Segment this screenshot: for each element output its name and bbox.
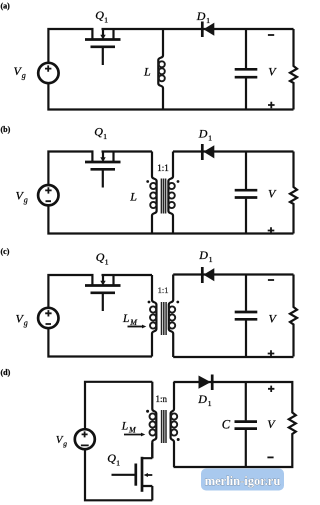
svg-text:Q: Q — [94, 125, 103, 139]
svg-text:1: 1 — [208, 133, 212, 142]
svg-text:g: g — [22, 71, 26, 80]
svg-text:1: 1 — [116, 459, 120, 468]
svg-text:Q: Q — [107, 451, 116, 465]
svg-text:g: g — [24, 196, 28, 205]
svg-text:L: L — [122, 313, 129, 325]
svg-text:1: 1 — [103, 132, 107, 141]
svg-text:D: D — [198, 126, 208, 140]
svg-text:1:n: 1:n — [156, 394, 168, 404]
svg-text:M: M — [128, 425, 137, 434]
svg-text:Q: Q — [96, 250, 105, 264]
svg-text:D: D — [196, 9, 206, 23]
svg-text:(d): (d) — [1, 368, 11, 377]
svg-text:1: 1 — [208, 399, 212, 408]
svg-text:1: 1 — [105, 258, 109, 267]
svg-text:L: L — [143, 64, 151, 78]
svg-text:g: g — [24, 319, 28, 328]
svg-text:(c): (c) — [1, 247, 10, 256]
svg-text:(b): (b) — [1, 125, 11, 134]
svg-text:L: L — [121, 420, 128, 432]
svg-text:D: D — [198, 248, 208, 262]
svg-text:Q: Q — [95, 8, 104, 22]
svg-text:merlin-igor.ru: merlin-igor.ru — [205, 474, 281, 488]
svg-text:C: C — [222, 417, 231, 431]
svg-text:1: 1 — [206, 16, 210, 25]
svg-text:1: 1 — [209, 255, 213, 264]
svg-text:1:1: 1:1 — [158, 285, 169, 295]
svg-text:g: g — [63, 439, 67, 448]
svg-text:D: D — [197, 392, 207, 406]
svg-text:L: L — [129, 190, 137, 204]
svg-text:(a): (a) — [1, 2, 11, 11]
svg-text:1: 1 — [104, 16, 108, 25]
svg-text:1:1: 1:1 — [157, 163, 169, 173]
svg-text:M: M — [129, 318, 138, 327]
